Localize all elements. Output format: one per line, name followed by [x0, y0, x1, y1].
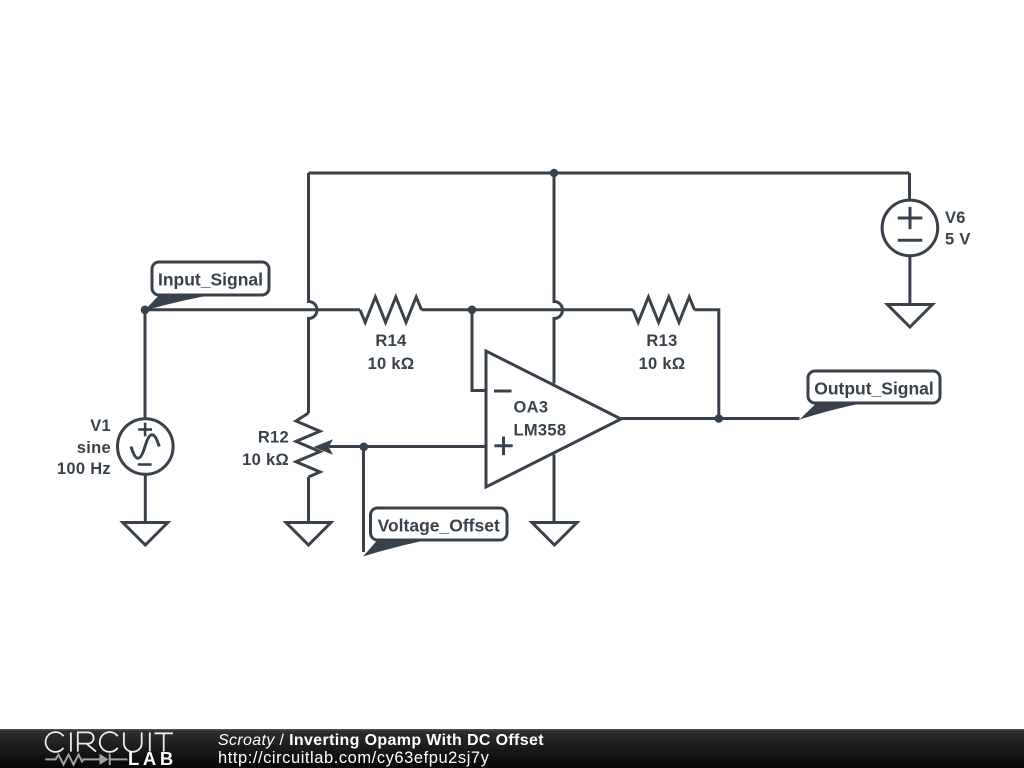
wire feedback to inverting input — [472, 310, 486, 391]
svg-text:R13: R13 — [646, 332, 677, 350]
svg-text:http://circuitlab.com/cy63efpu: http://circuitlab.com/cy63efpu2sj7y — [218, 749, 490, 767]
wire R14 to R13 — [422, 308, 634, 311]
voltage source V1 circle — [118, 419, 174, 475]
svg-text:Scroaty / Inverting Opamp With: Scroaty / Inverting Opamp With DC Offset — [218, 732, 544, 749]
wire V6 bottom — [908, 256, 911, 304]
potentiometer R12 zigzag — [296, 413, 320, 477]
label OA3 LM358 — [514, 399, 567, 440]
svg-text:5 V: 5 V — [945, 231, 971, 249]
wire R12 bottom — [307, 477, 310, 522]
V1 sine wave — [131, 435, 159, 459]
svg-text:10 kΩ: 10 kΩ — [639, 355, 686, 373]
wire V6 top — [908, 173, 911, 200]
op-amp plus input symbol — [494, 437, 512, 456]
V6 plus sign — [898, 207, 923, 229]
logo CIRCUIT drawn letters — [46, 732, 173, 752]
logo diode triangle — [100, 754, 109, 765]
svg-text:sine: sine — [77, 439, 111, 457]
label R13 value — [639, 332, 686, 373]
svg-text:Voltage_Offset: Voltage_Offset — [378, 516, 500, 536]
node junction dot feedback — [468, 306, 477, 315]
svg-text:LM358: LM358 — [514, 422, 567, 440]
resistor R14 — [360, 297, 422, 322]
svg-text:10 kΩ: 10 kΩ — [368, 355, 415, 373]
svg-text:R12: R12 — [258, 429, 289, 447]
wire R13 right corner down to output — [695, 310, 719, 419]
svg-text:Input_Signal: Input_Signal — [158, 270, 263, 290]
node Voltage_Offset callout — [363, 508, 507, 557]
ground under V6 — [887, 305, 932, 328]
node junction dot offset — [360, 443, 369, 452]
ground under R12 — [286, 523, 331, 546]
svg-text:Output_Signal: Output_Signal — [814, 379, 934, 399]
svg-text:V6: V6 — [945, 209, 966, 227]
V6 minus sign — [898, 239, 923, 242]
node Input_Signal callout — [145, 262, 270, 311]
V1 plus sign — [138, 423, 152, 437]
V1 minus sign — [138, 463, 152, 466]
node Output_Signal callout — [800, 371, 941, 420]
svg-text:R14: R14 — [375, 332, 407, 350]
footer bar — [0, 729, 1024, 768]
label V1 value — [57, 417, 111, 478]
label R14 value — [368, 332, 415, 373]
svg-text:OA3: OA3 — [514, 399, 549, 417]
label V6 value — [945, 209, 971, 249]
node junction dot top rail — [550, 169, 558, 177]
wire wiper to non-inverting input — [329, 445, 486, 448]
voltage source V6 circle — [882, 200, 938, 256]
ground under op-amp — [532, 523, 577, 546]
svg-text:100 Hz: 100 Hz — [57, 460, 111, 478]
op-amp minus input symbol — [494, 390, 512, 393]
svg-text:10 kΩ: 10 kΩ — [242, 451, 289, 469]
wire top rail — [309, 172, 910, 175]
wire op-amp negative supply pin — [553, 455, 556, 523]
resistor R13 — [633, 297, 695, 322]
wire node to V1 top — [144, 310, 147, 419]
logo schematic squiggle — [45, 754, 127, 765]
potentiometer wiper arrow — [314, 439, 334, 454]
wire V1 bottom — [144, 474, 147, 522]
node junction dot input — [141, 306, 150, 315]
wire middle vertical (op-amp V+) with hop — [554, 173, 563, 384]
wire input signal horizontal — [145, 308, 360, 311]
svg-text:LAB: LAB — [128, 748, 177, 768]
wire output — [621, 417, 800, 420]
svg-text:V1: V1 — [90, 417, 111, 435]
wire offset node down to callout — [362, 447, 365, 552]
op-amp OA3 triangle — [486, 351, 621, 487]
wire left vertical with hop over input wire — [309, 173, 318, 413]
ground under V1 — [123, 523, 168, 546]
label R12 value — [242, 429, 289, 470]
node junction dot output — [715, 414, 724, 423]
